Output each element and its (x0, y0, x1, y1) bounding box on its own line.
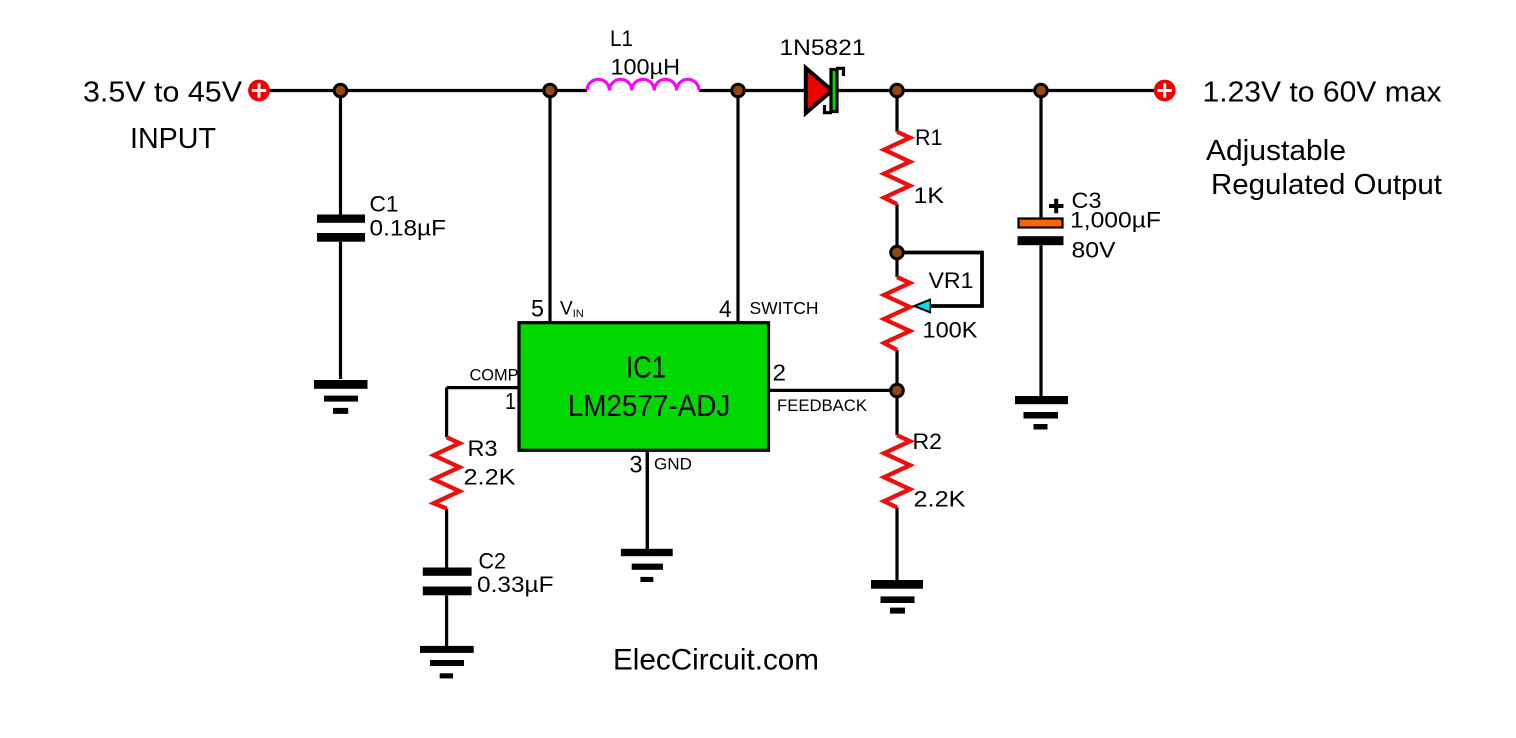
svg-text:80V: 80V (1072, 238, 1116, 263)
svg-text:4: 4 (719, 296, 732, 323)
svg-text:IC1: IC1 (626, 351, 666, 385)
svg-text:100µH: 100µH (611, 54, 681, 79)
svg-text:LM2577-ADJ: LM2577-ADJ (568, 389, 731, 423)
svg-text:SWITCH: SWITCH (750, 298, 819, 318)
svg-text:1.23V to 60V max: 1.23V to 60V max (1203, 77, 1443, 109)
svg-text:COMP: COMP (470, 366, 519, 385)
svg-text:Regulated Output: Regulated Output (1211, 169, 1442, 201)
svg-text:2: 2 (773, 360, 787, 386)
svg-text:R3: R3 (468, 436, 498, 461)
svg-text:2.2K: 2.2K (464, 465, 516, 490)
svg-text:GND: GND (654, 455, 692, 474)
svg-text:1: 1 (505, 388, 516, 414)
svg-text:FEEDBACK: FEEDBACK (777, 396, 868, 415)
svg-text:5: 5 (531, 295, 544, 322)
svg-text:R2: R2 (913, 429, 943, 454)
svg-text:3.5V to 45V: 3.5V to 45V (83, 77, 243, 109)
svg-text:R1: R1 (915, 125, 943, 150)
svg-text:0.33µF: 0.33µF (477, 572, 554, 597)
svg-text:ElecCircuit.com: ElecCircuit.com (613, 644, 819, 677)
svg-text:1,000µF: 1,000µF (1070, 208, 1161, 233)
svg-text:1K: 1K (914, 183, 945, 208)
svg-text:100K: 100K (923, 318, 978, 343)
svg-text:0.18µF: 0.18µF (370, 216, 447, 241)
svg-text:L1: L1 (610, 26, 633, 51)
svg-text:VR1: VR1 (929, 268, 974, 293)
svg-text:C2: C2 (479, 549, 507, 574)
svg-text:2.2K: 2.2K (914, 487, 966, 512)
svg-text:C1: C1 (370, 192, 399, 217)
svg-text:3: 3 (630, 452, 643, 479)
svg-text:1N5821: 1N5821 (780, 35, 866, 60)
svg-text:Adjustable: Adjustable (1206, 135, 1346, 167)
svg-text:INPUT: INPUT (130, 123, 216, 155)
